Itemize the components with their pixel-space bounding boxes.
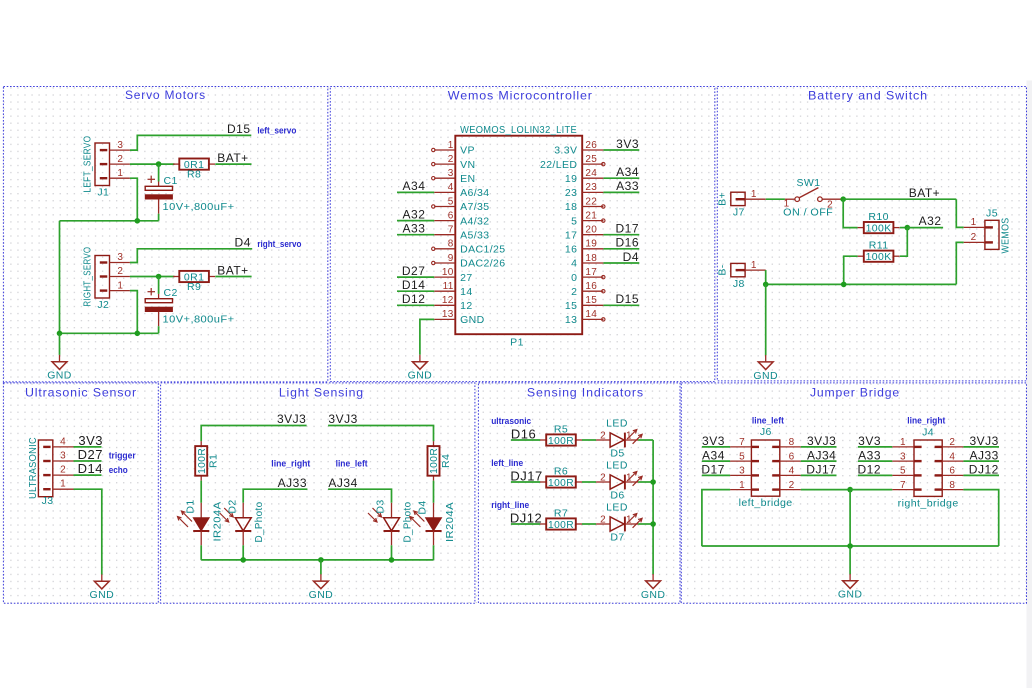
wire center drop xyxy=(849,490,851,546)
svg-text:WEMOS: WEMOS xyxy=(1000,218,1012,254)
svg-text:VP: VP xyxy=(460,145,475,157)
wire net 3V3 xyxy=(603,149,639,151)
junction xyxy=(847,487,853,493)
svg-text:4: 4 xyxy=(949,451,955,462)
pin 9 P1 xyxy=(432,253,506,270)
svg-text:J8: J8 xyxy=(733,278,745,290)
LED D5 xyxy=(596,418,642,460)
svg-text:J7: J7 xyxy=(733,207,745,219)
wire D1 to bus xyxy=(200,545,202,560)
svg-text:J5: J5 xyxy=(986,207,998,219)
resistor R9 xyxy=(173,271,215,293)
svg-text:19: 19 xyxy=(565,173,577,185)
svg-text:GND: GND xyxy=(47,370,72,382)
svg-text:R7: R7 xyxy=(554,508,568,520)
resistor R7 xyxy=(540,508,582,531)
photodiode D3 D_Photo xyxy=(368,499,413,545)
wire net A33 xyxy=(858,460,892,462)
wire net D27 xyxy=(74,460,102,462)
wire net AJ34 xyxy=(801,460,837,462)
wire net DJ17 xyxy=(801,474,837,476)
junction xyxy=(389,557,395,563)
svg-text:Light Sensing: Light Sensing xyxy=(279,385,364,399)
svg-text:GND: GND xyxy=(309,589,334,601)
svg-text:line_right: line_right xyxy=(271,458,310,468)
LED D6 xyxy=(596,460,642,502)
junction xyxy=(135,331,141,337)
pin 19 P1 xyxy=(565,239,603,256)
wire net 3V3 xyxy=(74,446,102,448)
wire D5 to rail xyxy=(638,439,653,441)
svg-text:LED: LED xyxy=(606,460,628,472)
svg-text:5: 5 xyxy=(900,466,906,477)
svg-text:100K: 100K xyxy=(866,251,892,263)
wire bus to ground xyxy=(320,560,322,575)
svg-text:1: 1 xyxy=(626,473,632,484)
LED D7 xyxy=(596,502,642,544)
svg-text:A33: A33 xyxy=(403,222,426,236)
svg-text:3: 3 xyxy=(117,140,123,151)
svg-text:1: 1 xyxy=(448,140,454,151)
svg-text:3VJ3: 3VJ3 xyxy=(807,434,836,448)
wire bottom loop xyxy=(702,545,999,547)
svg-text:1: 1 xyxy=(739,480,745,491)
svg-text:right_line: right_line xyxy=(491,500,529,510)
svg-text:14: 14 xyxy=(585,309,597,320)
pin 15 P1 xyxy=(565,295,603,312)
svg-text:1: 1 xyxy=(971,217,977,228)
wire R5 to D5 xyxy=(582,439,596,441)
pin 2 P1 xyxy=(432,154,476,171)
svg-text:3V3: 3V3 xyxy=(858,434,881,448)
svg-text:BAT+: BAT+ xyxy=(217,151,248,165)
svg-text:9: 9 xyxy=(448,253,454,264)
svg-text:R11: R11 xyxy=(869,240,889,252)
svg-text:GND: GND xyxy=(460,314,485,326)
svg-text:2: 2 xyxy=(117,266,123,277)
connector J7 xyxy=(717,189,766,218)
pin 16 P1 xyxy=(571,281,605,298)
junction xyxy=(135,218,141,224)
pin 5 P1 xyxy=(432,196,490,213)
svg-text:10: 10 xyxy=(442,267,454,278)
wire upper bus xyxy=(60,220,159,222)
ground xyxy=(753,355,778,382)
wire net DJ17 xyxy=(511,481,540,483)
wire D4 to bus xyxy=(433,545,435,560)
wire net AJ34 xyxy=(328,489,391,503)
svg-text:LED: LED xyxy=(606,418,628,430)
switch SW1 xyxy=(783,177,843,219)
wire net 3VJ3 xyxy=(963,446,999,448)
wire net 3V3 xyxy=(702,446,730,448)
resistor R11 xyxy=(858,240,900,263)
svg-text:GND: GND xyxy=(641,589,666,601)
wire net D17 xyxy=(603,234,639,236)
svg-text:13: 13 xyxy=(442,309,454,320)
svg-text:1: 1 xyxy=(626,515,632,526)
svg-text:J4: J4 xyxy=(922,427,934,439)
pin 23 P1 xyxy=(565,182,603,199)
wire bus to ground xyxy=(765,284,767,355)
svg-text:A4/32: A4/32 xyxy=(460,215,489,227)
svg-text:17: 17 xyxy=(585,267,597,278)
svg-text:100K: 100K xyxy=(866,223,892,235)
svg-text:A34: A34 xyxy=(616,165,639,179)
ground xyxy=(641,574,666,601)
svg-text:left_bridge: left_bridge xyxy=(739,497,793,509)
svg-text:3VJ3: 3VJ3 xyxy=(969,434,998,448)
pin 25 P1 xyxy=(540,154,605,171)
svg-text:26: 26 xyxy=(585,140,597,151)
svg-text:3VJ3: 3VJ3 xyxy=(328,412,357,426)
wire J1 pin 1 down xyxy=(130,178,137,221)
svg-text:4: 4 xyxy=(60,436,66,447)
wire net 3VJ3 xyxy=(801,446,837,448)
section frame Ultrasonic Sensor xyxy=(3,383,158,603)
svg-text:D7: D7 xyxy=(610,531,624,543)
svg-text:24: 24 xyxy=(585,168,597,179)
wire net A32 xyxy=(397,220,434,222)
svg-text:D12: D12 xyxy=(857,463,881,477)
wire net D12 xyxy=(858,474,892,476)
wire net 3VJ3 right xyxy=(328,426,433,442)
wire bus to J5 pin 2 xyxy=(956,242,963,284)
section frame Wemos Microcontroller xyxy=(330,87,715,382)
svg-text:GND: GND xyxy=(408,370,433,382)
junction xyxy=(650,521,656,527)
svg-text:3.3V: 3.3V xyxy=(554,145,577,157)
svg-text:3: 3 xyxy=(117,252,123,263)
svg-text:GND: GND xyxy=(90,589,115,601)
svg-text:7: 7 xyxy=(448,225,454,236)
ground xyxy=(408,355,433,382)
junction xyxy=(650,479,656,485)
svg-text:IR204A: IR204A xyxy=(444,502,456,542)
svg-text:22/LED: 22/LED xyxy=(540,159,577,171)
wire R11 left to bus xyxy=(844,256,858,284)
svg-text:1: 1 xyxy=(626,431,632,442)
svg-text:27: 27 xyxy=(460,272,472,284)
wire D2 to bus xyxy=(242,545,244,560)
svg-text:A5/33: A5/33 xyxy=(460,229,489,241)
junction xyxy=(905,225,911,231)
pin 4 P1 xyxy=(434,182,489,199)
svg-text:R6: R6 xyxy=(554,466,568,478)
svg-text:18: 18 xyxy=(585,253,597,264)
svg-text:7: 7 xyxy=(739,437,745,448)
resistor R10 xyxy=(858,211,900,234)
svg-text:23: 23 xyxy=(565,187,577,199)
svg-text:100R: 100R xyxy=(548,477,574,489)
svg-text:16: 16 xyxy=(565,244,577,256)
svg-text:15: 15 xyxy=(565,300,577,312)
svg-text:3V3: 3V3 xyxy=(78,433,103,448)
svg-text:Jumper Bridge: Jumper Bridge xyxy=(810,385,900,399)
section frame Battery and Switch xyxy=(717,87,1026,381)
pin 20 P1 xyxy=(565,225,603,242)
junction xyxy=(240,557,246,563)
wire light bus xyxy=(201,559,433,561)
wire net D15 xyxy=(603,304,639,306)
svg-text:13: 13 xyxy=(565,314,577,326)
svg-text:left_servo: left_servo xyxy=(257,125,296,135)
pin 17 P1 xyxy=(571,267,605,284)
svg-text:line_right: line_right xyxy=(907,416,945,426)
svg-text:3V3: 3V3 xyxy=(702,434,725,448)
wire C1 to bus xyxy=(158,214,160,221)
ground xyxy=(90,574,115,601)
svg-text:DAC2/26: DAC2/26 xyxy=(460,258,505,270)
svg-text:line_left: line_left xyxy=(336,458,368,468)
svg-text:0R1: 0R1 xyxy=(184,159,204,171)
svg-text:D2: D2 xyxy=(226,499,238,513)
pin 14 P1 xyxy=(565,309,605,326)
wire net DJ12 xyxy=(511,523,540,525)
svg-text:2: 2 xyxy=(971,232,977,243)
svg-text:1: 1 xyxy=(117,168,123,179)
svg-text:VN: VN xyxy=(460,159,475,171)
svg-text:D16: D16 xyxy=(615,236,639,250)
junction xyxy=(57,331,63,337)
svg-text:8: 8 xyxy=(448,239,454,250)
wire net A33 xyxy=(397,234,434,236)
wire net A32 xyxy=(907,227,943,229)
svg-text:11: 11 xyxy=(443,281,454,292)
wire net A34 xyxy=(702,460,730,462)
svg-text:100R: 100R xyxy=(548,435,574,447)
wire net D14 xyxy=(74,474,102,476)
ground xyxy=(838,574,863,601)
LED D1 IR204A xyxy=(178,499,224,545)
connector J5 xyxy=(964,207,1012,253)
svg-text:2: 2 xyxy=(949,437,955,448)
svg-text:AJ33: AJ33 xyxy=(278,476,307,490)
svg-text:ultrasonic: ultrasonic xyxy=(491,416,531,426)
svg-text:LED: LED xyxy=(606,502,628,514)
svg-text:D12: D12 xyxy=(402,292,426,306)
svg-text:22: 22 xyxy=(585,196,597,207)
svg-text:21: 21 xyxy=(585,210,597,221)
svg-text:WEOMOS_LOLIN32_LITE: WEOMOS_LOLIN32_LITE xyxy=(460,124,577,136)
svg-text:5: 5 xyxy=(571,215,577,227)
pin 26 P1 xyxy=(554,140,603,157)
svg-text:2: 2 xyxy=(448,154,454,165)
svg-text:EN: EN xyxy=(460,173,475,185)
svg-text:B-: B- xyxy=(717,264,729,275)
wire J4 pin 7 from junction xyxy=(850,489,892,491)
svg-text:R10: R10 xyxy=(868,211,888,223)
junction xyxy=(763,282,769,288)
svg-text:100R: 100R xyxy=(428,448,440,474)
svg-text:5: 5 xyxy=(448,196,454,207)
wire J6 pin 2 to loop xyxy=(801,489,850,491)
svg-text:0: 0 xyxy=(571,272,577,284)
svg-text:A34: A34 xyxy=(702,448,725,462)
wire BAT+ to J5 pin 1 xyxy=(956,199,963,227)
svg-text:23: 23 xyxy=(585,182,597,193)
svg-text:1: 1 xyxy=(751,260,757,271)
svg-text:A32: A32 xyxy=(403,207,426,221)
pin 22 P1 xyxy=(565,196,605,213)
svg-text:AJ34: AJ34 xyxy=(807,448,836,462)
section frame Servo Motors xyxy=(3,87,327,382)
svg-text:C2: C2 xyxy=(164,287,178,299)
svg-text:D14: D14 xyxy=(78,461,103,476)
svg-text:Ultrasonic Sensor: Ultrasonic Sensor xyxy=(25,385,137,399)
svg-text:ON / OFF: ON / OFF xyxy=(783,207,833,219)
svg-text:4: 4 xyxy=(448,182,454,193)
wire net DJ12 xyxy=(963,474,999,476)
wire net A34 xyxy=(603,177,639,179)
svg-text:15: 15 xyxy=(585,295,597,306)
wire R8 to BAT+ xyxy=(215,163,251,165)
svg-text:D_Photo: D_Photo xyxy=(401,502,413,543)
svg-text:A34: A34 xyxy=(403,179,426,193)
pin 10 P1 xyxy=(434,267,472,284)
svg-text:2: 2 xyxy=(789,480,795,491)
svg-text:2: 2 xyxy=(600,515,606,526)
svg-text:10V+,800uF+: 10V+,800uF+ xyxy=(163,201,235,213)
svg-text:echo: echo xyxy=(109,465,128,475)
svg-text:3VJ3: 3VJ3 xyxy=(277,412,306,426)
wire R10 to junction xyxy=(900,227,908,229)
ground xyxy=(47,355,72,382)
wire J2 pin 2 to R9 xyxy=(130,276,175,278)
wire net D16 xyxy=(511,439,540,441)
svg-text:BAT+: BAT+ xyxy=(217,263,248,277)
svg-text:J1: J1 xyxy=(97,186,109,198)
svg-text:20: 20 xyxy=(585,225,597,236)
connector J3 xyxy=(27,436,74,507)
pin 18 P1 xyxy=(571,253,603,270)
pin 8 P1 xyxy=(432,239,506,256)
svg-text:ULTRASONIC: ULTRASONIC xyxy=(27,437,39,499)
wire C2 to bus xyxy=(158,326,160,333)
wire R4 to D4 xyxy=(433,481,435,503)
svg-text:D6: D6 xyxy=(610,489,624,501)
capacitor C1 xyxy=(145,175,234,214)
junction xyxy=(840,196,846,202)
svg-text:2: 2 xyxy=(600,473,606,484)
svg-text:DJ17: DJ17 xyxy=(806,463,836,477)
wire BAT+ net xyxy=(843,198,956,200)
wire net A33 xyxy=(603,191,639,193)
wire R9 to BAT+ xyxy=(215,276,251,278)
pin 21 P1 xyxy=(571,210,605,227)
wire J8 to bus xyxy=(765,270,767,284)
wire rail to ground xyxy=(59,333,61,355)
wire R7 to D7 xyxy=(582,523,596,525)
svg-text:7: 7 xyxy=(900,480,906,491)
wire indicator rail xyxy=(652,440,654,574)
svg-text:6: 6 xyxy=(448,210,454,221)
wire to R10 xyxy=(843,199,857,227)
svg-text:16: 16 xyxy=(585,281,597,292)
wire D7 to rail xyxy=(638,523,653,525)
wire loop to ground xyxy=(849,546,851,574)
svg-text:DJ12: DJ12 xyxy=(969,463,999,477)
svg-text:R1: R1 xyxy=(208,454,220,468)
svg-text:Wemos Microcontroller: Wemos Microcontroller xyxy=(448,89,593,103)
svg-text:12: 12 xyxy=(460,300,472,312)
wire D15 from J1 pin 3 xyxy=(130,135,251,150)
svg-text:10V+,800uF+: 10V+,800uF+ xyxy=(163,313,235,325)
svg-text:A6/34: A6/34 xyxy=(460,187,489,199)
svg-text:J3: J3 xyxy=(42,495,54,507)
wire net D27 xyxy=(397,276,434,278)
svg-text:19: 19 xyxy=(585,239,597,250)
svg-text:GND: GND xyxy=(838,589,863,601)
wire junction to C1 xyxy=(158,164,160,181)
svg-text:2: 2 xyxy=(117,154,123,165)
svg-text:3: 3 xyxy=(448,168,454,179)
connector J1 xyxy=(81,136,129,199)
wire net A34 xyxy=(397,191,434,193)
wire net D16 xyxy=(603,248,639,250)
svg-text:IR204A: IR204A xyxy=(212,502,224,542)
svg-text:LEFT_SERVO: LEFT_SERVO xyxy=(81,136,93,193)
wire net 3VJ3 left xyxy=(201,426,306,442)
resistor R5 xyxy=(540,424,582,447)
microcontroller P1 WEOMOS_LOLIN32_LITE xyxy=(455,124,582,349)
svg-text:AJ33: AJ33 xyxy=(969,448,998,462)
svg-text:SW1: SW1 xyxy=(797,177,821,189)
wire R11 right to junction xyxy=(900,228,908,257)
svg-text:GND: GND xyxy=(753,370,778,382)
svg-text:A7/35: A7/35 xyxy=(460,201,489,213)
svg-text:RIGHT_SERVO: RIGHT_SERVO xyxy=(81,247,93,307)
wire P1 GND pin 13 xyxy=(420,319,434,354)
svg-text:AJ34: AJ34 xyxy=(328,476,357,490)
wire left rail xyxy=(59,221,61,333)
svg-text:8: 8 xyxy=(949,480,955,491)
junction xyxy=(156,274,162,280)
svg-text:17: 17 xyxy=(565,229,577,241)
svg-text:A33: A33 xyxy=(858,448,881,462)
svg-text:DAC1/25: DAC1/25 xyxy=(460,244,505,256)
pin 7 P1 xyxy=(434,225,489,242)
resistor R1 xyxy=(195,441,219,480)
svg-text:D15: D15 xyxy=(227,122,251,136)
svg-text:14: 14 xyxy=(460,286,472,298)
wire R1 to D1 xyxy=(200,481,202,503)
svg-text:2: 2 xyxy=(600,431,606,442)
svg-text:D27: D27 xyxy=(78,447,103,462)
connector J4 xyxy=(892,427,963,510)
pin 1 P1 xyxy=(432,140,475,157)
wire junction to C2 xyxy=(158,277,160,294)
svg-text:D15: D15 xyxy=(615,292,639,306)
connector J2 xyxy=(81,247,129,311)
section frame Jumper Bridge xyxy=(681,383,1026,603)
wire lower bus xyxy=(60,332,159,334)
svg-text:4: 4 xyxy=(789,466,795,477)
svg-text:1: 1 xyxy=(900,437,906,448)
wire net D14 xyxy=(397,290,434,292)
svg-text:R4: R4 xyxy=(440,454,452,468)
wire net D12 xyxy=(397,304,434,306)
svg-text:left_line: left_line xyxy=(491,458,523,468)
junction xyxy=(841,282,847,288)
svg-text:D17: D17 xyxy=(615,222,639,236)
wire net D17 xyxy=(702,474,730,476)
ground xyxy=(309,574,334,601)
wire net D4 xyxy=(603,262,639,264)
svg-text:trigger: trigger xyxy=(109,451,136,461)
svg-text:3V3: 3V3 xyxy=(616,137,639,151)
wire J6 pin 1 to loop xyxy=(702,490,730,546)
